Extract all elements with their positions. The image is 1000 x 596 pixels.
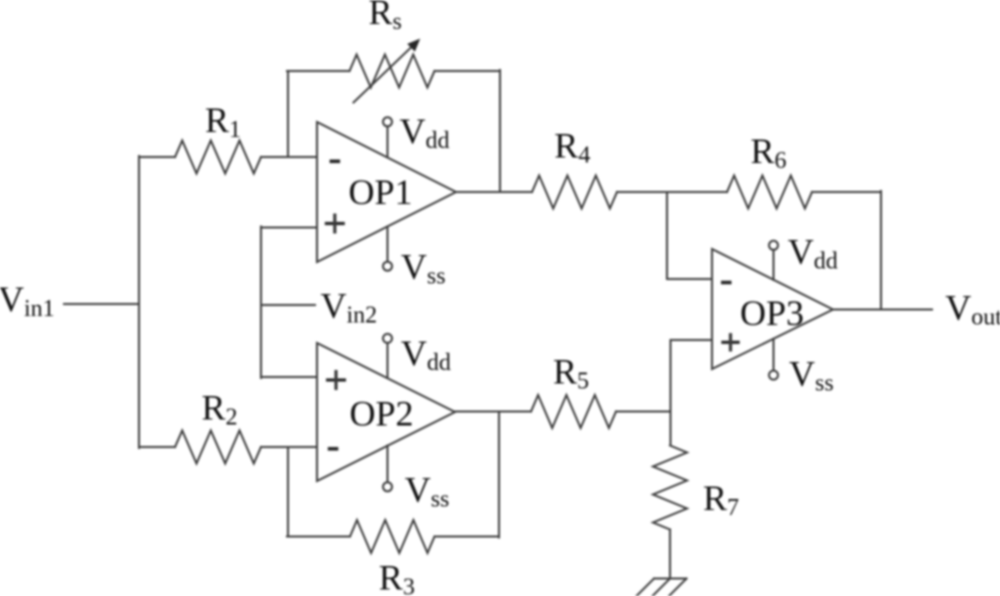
OP1 Vss pin	[387, 227, 389, 263]
wire R1 to OP1 inverting input	[261, 156, 317, 158]
svg-text:R4: R4	[554, 126, 590, 169]
wire junction down to OP3 inverting input	[666, 192, 668, 279]
svg-text:Vin1: Vin1	[0, 279, 55, 322]
ground	[637, 579, 687, 596]
svg-text:OP2: OP2	[350, 393, 414, 433]
resistor R1	[175, 141, 261, 174]
OP1 non-inverting input plus sign	[325, 222, 345, 225]
resistor R4	[532, 176, 617, 209]
svg-text:Vout: Vout	[945, 288, 1000, 331]
OP2 Vss pin	[387, 446, 389, 483]
wire R5 to junction	[616, 411, 671, 413]
wire OP1 output	[456, 191, 532, 193]
wire R3 right	[435, 536, 500, 538]
wire R7 junction down	[670, 412, 672, 446]
OP3 non-inverting input plus sign	[721, 341, 739, 344]
wire R2 to OP2 inverting input	[261, 446, 317, 448]
svg-text:Vss: Vss	[405, 469, 450, 512]
wire OP3 output to Vout	[833, 309, 932, 311]
wire OP2 plus input	[261, 376, 317, 378]
wire OP1 plus input	[261, 227, 317, 229]
wire bus to R2	[139, 446, 175, 448]
OP2 non-inverting input plus sign	[326, 378, 346, 381]
resistor R3	[350, 520, 435, 553]
resistor R6	[727, 176, 812, 209]
svg-text:R5: R5	[553, 352, 589, 395]
svg-text:Vin2: Vin2	[321, 286, 378, 329]
wire R3 left vertical	[287, 447, 289, 537]
resistor Rs (variable)	[350, 55, 435, 88]
wire bus to R1	[139, 156, 175, 158]
svg-text:Vdd: Vdd	[788, 231, 838, 274]
wire Vin2 stub	[261, 304, 315, 306]
svg-text:R7: R7	[703, 478, 739, 521]
svg-text:OP3: OP3	[740, 293, 804, 333]
wire junction up to OP3 non-inverting input	[670, 340, 672, 413]
arrow of variable resistor Rs	[354, 46, 413, 103]
OP1 inverting input minus sign	[330, 160, 341, 164]
wire R3 left	[287, 536, 350, 538]
op-amp U2 OP2 triangle	[317, 343, 455, 481]
wire Rs right vertical to OP1 output	[499, 70, 501, 192]
OP3 Vss pin	[773, 339, 775, 371]
svg-text:R3: R3	[379, 558, 415, 596]
OP2 inverting input minus sign	[328, 447, 339, 451]
wire R6 right vertical to output	[880, 191, 882, 310]
resistor R2	[175, 431, 261, 464]
resistor R7	[653, 446, 687, 530]
wire Rs top right	[435, 70, 501, 72]
wire OP2 output	[455, 411, 531, 413]
wire Vin1 to input bus	[64, 303, 139, 305]
wire Rs left vertical	[287, 71, 289, 157]
op-amp U3 OP3 triangle	[712, 249, 833, 369]
wire left input bus vertical	[138, 156, 140, 448]
wire R3 right vertical to OP2 output	[498, 412, 500, 538]
svg-text:Vdd: Vdd	[400, 111, 450, 154]
svg-text:OP1: OP1	[349, 172, 413, 212]
svg-text:Rs: Rs	[369, 0, 402, 35]
resistor R5	[531, 395, 616, 428]
OP2 Vdd pin	[387, 343, 389, 378]
svg-text:R2: R2	[202, 388, 238, 431]
svg-text:R6: R6	[751, 131, 787, 174]
svg-text:R1: R1	[205, 100, 241, 143]
wire Rs top left	[287, 70, 350, 72]
wire R4 to R6	[617, 191, 727, 193]
svg-text:Vss: Vss	[401, 247, 446, 290]
wire R7 to ground	[669, 530, 671, 579]
svg-text:Vdd: Vdd	[401, 333, 451, 376]
op-amp U1 OP1 triangle	[317, 122, 456, 262]
OP3 inverting input minus sign	[721, 281, 732, 285]
OP1 Vdd pin	[387, 126, 389, 157]
OP3 Vdd pin	[773, 250, 775, 280]
wire Vin2 bus vertical	[260, 227, 262, 379]
svg-text:Vss: Vss	[789, 354, 834, 397]
wire R6 right	[812, 191, 881, 193]
